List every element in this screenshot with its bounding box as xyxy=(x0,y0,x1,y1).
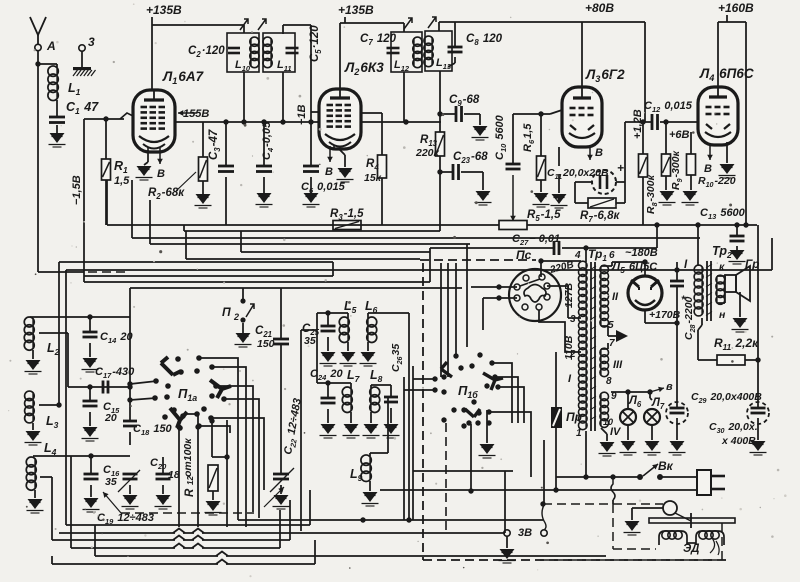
flex wire to motor xyxy=(611,477,615,500)
bus bottom y564 xyxy=(51,556,53,564)
IF transformer box L10 xyxy=(227,33,259,72)
svg-text:Л4 6П6С: Л4 6П6С xyxy=(699,66,754,83)
svg-text:С3-47: С3-47 xyxy=(208,129,222,160)
capacitor C8 outside box xyxy=(454,22,456,46)
svg-text:В: В xyxy=(157,168,165,180)
resistor R7 6.8k horizontal xyxy=(588,198,616,208)
capacitor C9 68 xyxy=(440,113,456,115)
bus y276 xyxy=(84,275,333,277)
svg-text:С14 20: С14 20 xyxy=(100,331,133,345)
fuse Pr xyxy=(551,407,562,428)
tube U2 6K3 xyxy=(319,89,361,149)
wire hop jogs xyxy=(175,531,183,535)
coil L2 xyxy=(30,316,130,318)
bus y270 xyxy=(66,269,772,271)
svg-text:С10 5600: С10 5600 xyxy=(494,114,508,160)
svg-text:R: R xyxy=(184,488,196,497)
wire fan P1a right xyxy=(199,358,238,423)
Tr1 secondary II leads xyxy=(601,265,612,267)
verticals from Pc down xyxy=(440,263,442,377)
IF transformer box L13 xyxy=(425,31,452,71)
svg-text:2: 2 xyxy=(233,312,239,322)
svg-text:R5-1,5: R5-1,5 xyxy=(527,209,561,223)
svg-text:В: В xyxy=(595,147,603,159)
node B arrow (heater) xyxy=(159,148,161,164)
svg-text:В: В xyxy=(325,166,333,178)
Tr2 secondary xyxy=(716,276,718,303)
svg-text:R3-1,5: R3-1,5 xyxy=(330,208,364,222)
wire L11 bottom to AVC bus xyxy=(282,72,284,122)
socket selector line xyxy=(520,279,540,286)
ground under R2 xyxy=(202,181,204,194)
ground P1b xyxy=(486,410,488,443)
socket Pc circle xyxy=(509,269,561,321)
bus y225 main xyxy=(107,224,440,226)
rail y387 xyxy=(68,386,130,388)
grid lead U3 xyxy=(550,110,562,114)
connector verticals mid-bottom xyxy=(403,377,405,520)
socket center key xyxy=(524,285,546,303)
capacitor C11 electrolytic 20x20V xyxy=(558,147,560,166)
vertical from L6 top xyxy=(408,313,410,520)
screen bus y122 xyxy=(175,121,441,123)
speaker leads xyxy=(717,275,725,277)
bus y244 xyxy=(149,200,151,244)
svg-text:*: * xyxy=(681,294,686,306)
capacitor C20 18 xyxy=(156,473,171,476)
svg-text:2: 2 xyxy=(569,349,576,360)
bus bottom y540 xyxy=(52,539,290,541)
capacitor C27 0.01 xyxy=(430,247,554,249)
IF transformer box L11 xyxy=(263,33,295,72)
resistor R10 220 xyxy=(690,132,692,154)
antenna xyxy=(30,17,46,35)
svg-text:R11 2,2к: R11 2,2к xyxy=(714,336,759,352)
terminal 3V xyxy=(504,530,510,536)
Tr1 secondary IV xyxy=(600,393,602,426)
svg-text:7: 7 xyxy=(609,338,615,349)
tube U4 6P6S xyxy=(698,87,738,145)
dashed box left of P1b xyxy=(422,263,424,560)
trimmer arrow 1 xyxy=(240,19,248,30)
svg-text:4: 4 xyxy=(574,250,581,261)
Tr2 primary bottom to R11 xyxy=(701,318,703,325)
capacitor C5 in box xyxy=(286,47,299,50)
capacitor C3 47 xyxy=(225,122,227,165)
svg-text:5: 5 xyxy=(608,320,614,331)
coil L3 xyxy=(32,392,34,422)
svg-text:20: 20 xyxy=(104,412,117,424)
svg-text:С18 150: С18 150 xyxy=(133,423,173,437)
Tr1 primary winding xyxy=(585,262,587,429)
tonearm xyxy=(649,518,735,523)
socket to transformer taps xyxy=(547,285,568,287)
dashed gang link xyxy=(121,512,254,514)
capacitor C7 in box xyxy=(387,47,400,50)
svg-text:18: 18 xyxy=(168,469,180,481)
svg-text:+160В: +160В xyxy=(718,1,754,15)
capacitor C18 150 xyxy=(129,317,131,420)
Tr1 secondary II xyxy=(600,266,602,326)
capacitor C4 0.05 xyxy=(263,122,265,165)
bus bottom y520 xyxy=(238,519,543,521)
wire lower power xyxy=(380,489,697,491)
Tr1 core xyxy=(590,262,592,431)
svg-text:С2·120: С2·120 xyxy=(188,45,225,59)
resistor R3 1.5 horizontal on bus xyxy=(333,221,361,230)
svg-text:П: П xyxy=(222,305,231,319)
bus y288 xyxy=(130,287,462,289)
resistor R2 68k variable xyxy=(202,122,204,157)
svg-text:от100к: от100к xyxy=(182,438,194,477)
resistor R9 300k xyxy=(665,122,667,154)
svg-text:15к: 15к xyxy=(364,172,382,184)
socket leads xyxy=(471,286,517,288)
bus bottom y548 xyxy=(71,547,280,549)
switch P1b wipers xyxy=(441,362,452,377)
svg-text:R2-68к: R2-68к xyxy=(148,187,185,201)
svg-text:R9-300к: R9-300к xyxy=(670,150,684,190)
Tr2 primary xyxy=(701,266,703,315)
resistor R6 1.5 xyxy=(540,114,542,156)
svg-text:−1,5В: −1,5В xyxy=(71,175,83,205)
bus bottom y525 xyxy=(66,524,310,526)
svg-text:С4-0,05: С4-0,05 xyxy=(261,121,275,160)
svg-text:Пр: Пр xyxy=(566,410,582,424)
ground under C1 xyxy=(56,125,58,133)
wire P1b bottom rail xyxy=(413,470,513,472)
speaker ground xyxy=(739,292,741,317)
fan wires P1b right xyxy=(492,363,512,423)
vertical x71 from L4 rail xyxy=(70,456,72,548)
Tr1 IV bottom ground xyxy=(601,428,607,434)
svg-text:III: III xyxy=(613,359,623,371)
capacitor C15 20 xyxy=(89,387,91,400)
AVC bus y272 dashed piece xyxy=(38,271,84,273)
capacitor C19 variable 12-483 xyxy=(123,473,138,476)
cathode B arrow of U4 xyxy=(709,145,711,160)
svg-text:н: н xyxy=(719,309,726,321)
svg-text:к: к xyxy=(719,261,725,273)
capacitor C14 20 xyxy=(89,317,91,331)
capacitor C10 5600 xyxy=(512,114,514,163)
dashed link Pc xyxy=(420,259,536,261)
wire L12 down xyxy=(403,72,405,122)
wire L11 top to U2 grid xyxy=(282,25,284,34)
cathode arrow B of U3 xyxy=(589,147,591,160)
junction dots fan xyxy=(176,424,181,429)
svg-text:С30 20,0х.: С30 20,0х. xyxy=(709,421,758,435)
IF transformer box L12 xyxy=(391,32,422,72)
wire osc left loop xyxy=(316,313,318,383)
bus y231 xyxy=(183,225,185,231)
verticals to bottom bus xyxy=(237,423,239,520)
svg-text:С12 0,015: С12 0,015 xyxy=(644,100,693,114)
svg-text:Л26К3: Л26К3 xyxy=(344,60,384,77)
right edge vertical xyxy=(757,225,759,407)
terminal 3 xyxy=(79,45,85,51)
vertical x84 down to AVC bus xyxy=(83,119,85,282)
svg-text:150: 150 xyxy=(257,338,275,350)
resistor R5 1.5 horizontal xyxy=(440,224,499,226)
coil L11 xyxy=(270,38,272,67)
svg-text:155В: 155В xyxy=(183,108,209,120)
ground U4 right xyxy=(726,142,728,163)
lamp bus xyxy=(611,391,650,393)
socket top feed xyxy=(540,261,542,277)
svg-text:35: 35 xyxy=(105,476,117,488)
svg-text:С24 20: С24 20 xyxy=(310,368,343,382)
svg-text:1,5: 1,5 xyxy=(114,175,130,187)
svg-text:С6 0,015: С6 0,015 xyxy=(301,181,346,195)
wire L13 top rail to +80 xyxy=(438,22,440,31)
ground below P2 xyxy=(242,323,244,333)
svg-text:+170В: +170В xyxy=(649,309,681,321)
phono dashed box xyxy=(543,503,663,505)
vertical right of L9 region xyxy=(332,262,334,276)
coil L12 xyxy=(413,38,415,67)
wire U5 anode xyxy=(644,262,646,276)
svg-text:ЭД: ЭД xyxy=(683,543,699,555)
pickup head xyxy=(663,501,677,515)
terminal A xyxy=(35,44,41,50)
svg-text:R7-6,8к: R7-6,8к xyxy=(580,210,620,224)
coil L1 xyxy=(38,63,57,65)
power bus to switch Vk xyxy=(556,476,640,478)
svg-text:R61,5: R61,5 xyxy=(522,123,536,152)
capacitor C6 0.015 xyxy=(303,165,319,168)
coil L13 xyxy=(431,37,433,66)
bus y238 xyxy=(131,180,133,238)
tap of L3 xyxy=(39,404,59,406)
tap of L4 xyxy=(40,476,52,478)
bus y282 xyxy=(84,281,430,283)
svg-text:С1 47: С1 47 xyxy=(66,100,99,116)
svg-text:3: 3 xyxy=(570,314,576,325)
Tr1 secondary III xyxy=(600,349,602,376)
vertical x95 xyxy=(94,525,96,556)
bus y262 xyxy=(59,261,333,263)
wire R5 to R7 bus xyxy=(527,224,757,226)
svg-text:С9-68: С9-68 xyxy=(449,94,480,108)
svg-text:10: 10 xyxy=(603,417,613,427)
bus bottom y556 xyxy=(95,555,606,557)
node +155V arrow xyxy=(178,112,197,114)
terminal Zv xyxy=(541,530,547,536)
resistor R13 220k xyxy=(436,132,445,156)
wire antenna down to AVC bus xyxy=(37,51,39,64)
svg-text:220к: 220к xyxy=(415,147,440,159)
coil L10 xyxy=(250,38,252,67)
trimmer arrow 4 xyxy=(428,17,436,28)
socket pins xyxy=(539,274,545,280)
capacitor C2 120 xyxy=(228,47,240,50)
svg-text:С8 120: С8 120 xyxy=(466,33,503,47)
svg-text:35: 35 xyxy=(304,335,316,347)
capacitor C28 2200 xyxy=(676,262,678,280)
svg-text:+: + xyxy=(617,161,624,175)
ground terminal 3 xyxy=(81,51,83,67)
tube U1 6A7 pentagrid xyxy=(133,90,175,152)
bus y252 xyxy=(240,231,242,252)
svg-text:Л16А7: Л16А7 xyxy=(162,69,205,86)
cathode ground U2 xyxy=(329,146,331,162)
svg-text:В: В xyxy=(704,163,712,175)
svg-text:С13 5600: С13 5600 xyxy=(700,207,746,221)
capacitor C1 47 xyxy=(56,100,58,116)
svg-text:Вк: Вк xyxy=(658,459,674,473)
svg-text:+135В: +135В xyxy=(146,3,182,17)
capacitor C12 0.015 xyxy=(625,121,652,123)
wires P1b to left verticals xyxy=(413,378,435,380)
capacitor C16 35 xyxy=(90,456,92,473)
wire L10 down xyxy=(243,72,245,122)
svg-text:IV: IV xyxy=(610,426,622,438)
resistor R1 1.5 xyxy=(105,119,107,159)
trimmer arrow 2 xyxy=(258,19,266,30)
tap of L2 xyxy=(39,332,68,334)
svg-text:3В: 3В xyxy=(518,527,532,539)
plug xyxy=(697,470,711,495)
svg-text:А: А xyxy=(46,39,56,53)
svg-text:С27− 0,01: С27− 0,01 xyxy=(512,233,560,247)
switch P1a wipers xyxy=(161,357,181,375)
svg-text:С7 120: С7 120 xyxy=(360,33,397,47)
resistor R8 300k xyxy=(642,122,644,154)
svg-text:R8-300к: R8-300к xyxy=(645,174,659,214)
wire L13 down to R13 xyxy=(439,71,441,132)
svg-text:~180В: ~180В xyxy=(625,247,658,259)
wire fan P1a down-left xyxy=(178,425,180,527)
Tr1 primary bottom to bus xyxy=(585,431,587,477)
trimmer arrow 3 xyxy=(404,18,412,29)
tube U3 6G2 xyxy=(562,87,602,147)
svg-text:II: II xyxy=(612,291,619,303)
svg-text:С23-68: С23-68 xyxy=(453,151,488,165)
svg-text:8: 8 xyxy=(606,376,612,387)
resistor R4 15k xyxy=(362,112,382,114)
svg-text:Л36Г2: Л36Г2 xyxy=(585,67,625,84)
svg-text:+80В: +80В xyxy=(585,1,614,15)
svg-text:R10-220: R10-220 xyxy=(698,175,736,189)
svg-text:3: 3 xyxy=(88,35,95,49)
bus bottom y533 xyxy=(59,532,505,534)
bus y259 xyxy=(185,231,187,259)
svg-text:+6В: +6В xyxy=(669,129,690,141)
svg-text:−1В: −1В xyxy=(296,104,308,125)
capacitor C23 68 xyxy=(440,171,453,173)
svg-text:в: в xyxy=(666,381,673,393)
grid lead left of U1 xyxy=(84,118,124,120)
svg-text:+135В: +135В xyxy=(338,3,374,17)
cathode ground of U1 xyxy=(147,150,149,162)
